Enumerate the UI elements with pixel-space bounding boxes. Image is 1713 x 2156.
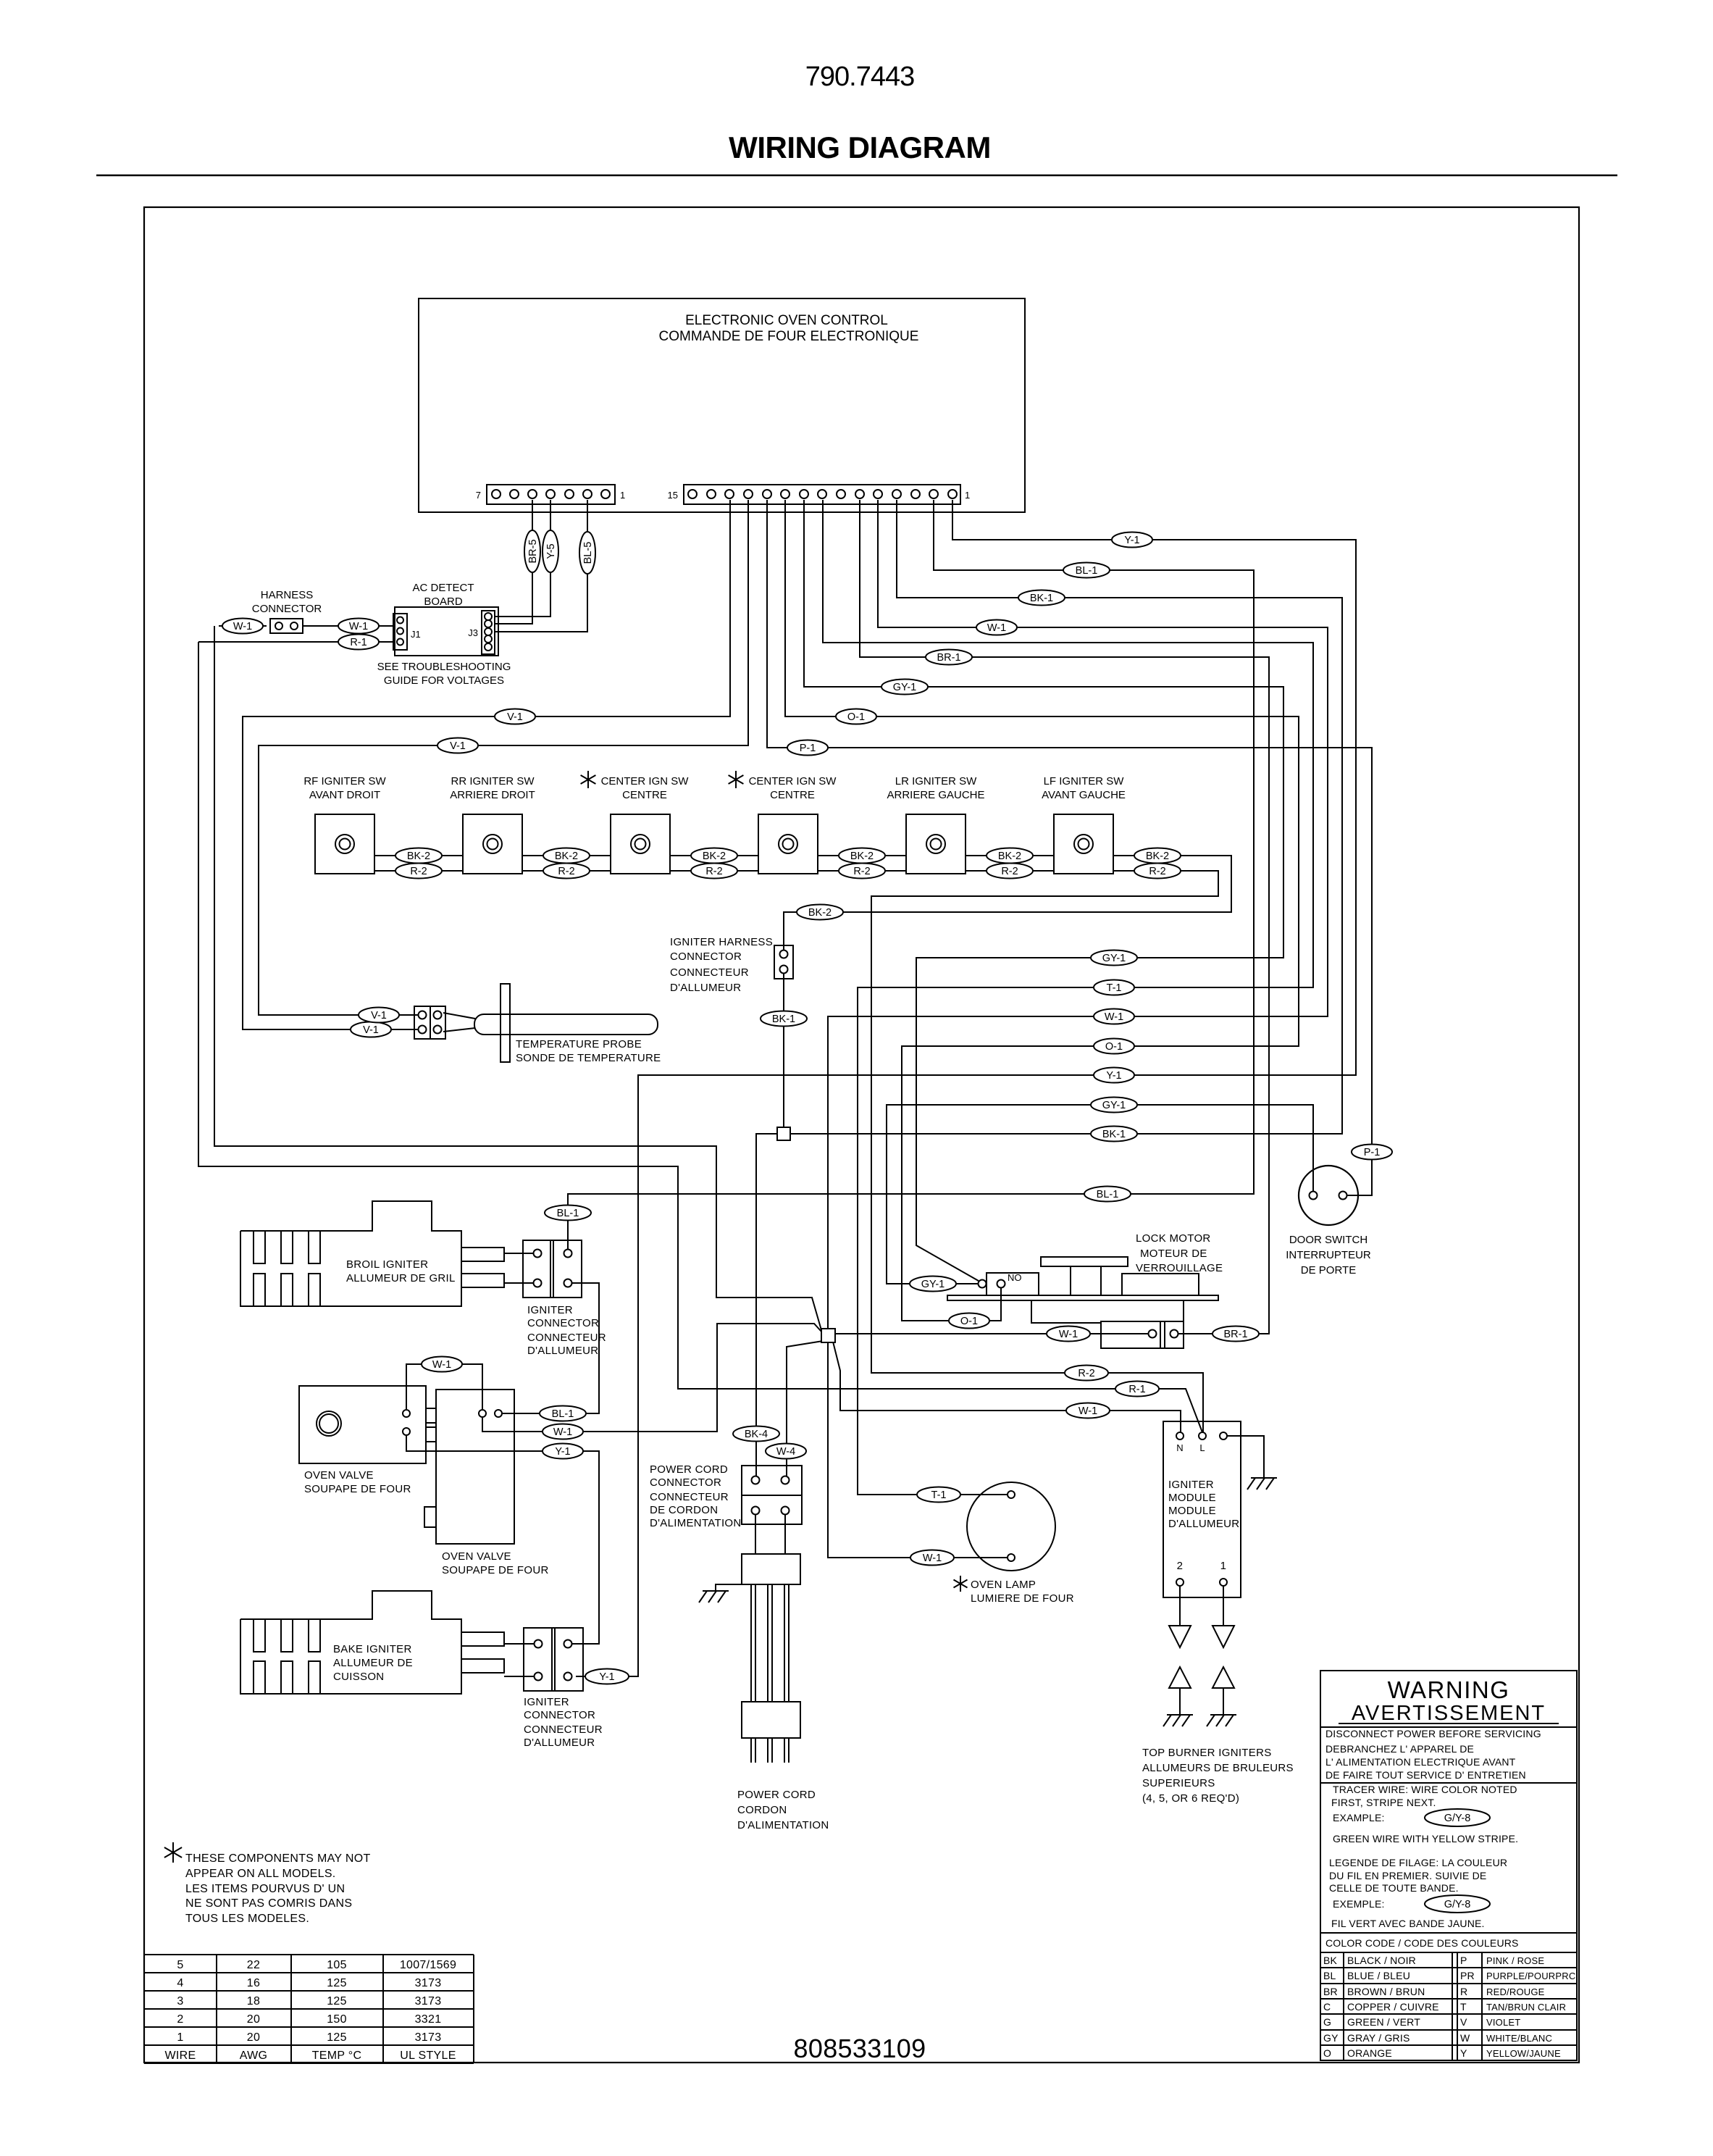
svg-text:G/Y-8: G/Y-8 [1444, 1813, 1471, 1824]
wire W-1 pin5 to node2 [828, 500, 1328, 1329]
svg-text:DE CORDON: DE CORDON [650, 1504, 718, 1516]
svg-text:1: 1 [1220, 1560, 1227, 1572]
svg-text:PURPLE/POURPRC: PURPLE/POURPRC [1486, 1971, 1575, 1981]
connector J1 [393, 614, 407, 650]
svg-text:GY: GY [1323, 2032, 1339, 2044]
svg-text:AVANT GAUCHE: AVANT GAUCHE [1042, 789, 1126, 801]
svg-text:SUPERIEURS: SUPERIEURS [1142, 1777, 1215, 1789]
svg-text:CONNECTOR: CONNECTOR [527, 1317, 599, 1329]
svg-text:O-1: O-1 [847, 711, 865, 723]
svg-text:BK-2: BK-2 [555, 851, 578, 862]
svg-text:BR-5: BR-5 [527, 539, 539, 563]
svg-text:SOUPAPE DE FOUR: SOUPAPE DE FOUR [304, 1483, 411, 1495]
svg-text:NE SONT PAS COMRIS DANS: NE SONT PAS COMRIS DANS [185, 1897, 352, 1910]
svg-text:COLOR CODE / CODE DES: COLOR CODE / CODE DES COULEURS [1325, 1937, 1519, 1949]
svg-text:Y-5: Y-5 [545, 543, 557, 559]
svg-text:T-1: T-1 [1107, 982, 1122, 994]
svg-text:W-4: W-4 [776, 1446, 795, 1458]
wire BL-1 pin2 to broil igniter connector [568, 500, 1254, 1249]
svg-text:YELLOW/JAUNE: YELLOW/JAUNE [1486, 2048, 1561, 2059]
svg-text:BK-2: BK-2 [808, 907, 832, 919]
svg-text:Y-1: Y-1 [1106, 1070, 1121, 1082]
svg-text:BL-1: BL-1 [557, 1208, 579, 1219]
svg-text:BL-1: BL-1 [552, 1408, 574, 1420]
svg-text:AVANT DROIT: AVANT DROIT [309, 789, 380, 801]
svg-text:MODULE: MODULE [1168, 1505, 1216, 1517]
svg-text:BK-2: BK-2 [703, 851, 726, 862]
wire W-1 node2 to oven lamp [828, 1342, 1007, 1558]
svg-text:DE FAIRE TOUT SERVICE D' E: DE FAIRE TOUT SERVICE D' ENTRETIEN [1325, 1769, 1526, 1781]
svg-text:IGNITER: IGNITER [1168, 1479, 1214, 1491]
svg-text:GREEN / VERT: GREEN / VERT [1347, 2016, 1420, 2028]
svg-text:Y-1: Y-1 [1124, 535, 1139, 546]
wire V-1 pin13 to probe [243, 500, 730, 1029]
svg-text:DEBRANCHEZ L' APPAREL DE: DEBRANCHEZ L' APPAREL DE [1325, 1743, 1474, 1755]
wire W-1 oven valve to node2 [482, 1324, 821, 1432]
svg-text:APPEAR ON ALL MODELS.: APPEAR ON ALL MODELS. [185, 1868, 336, 1880]
svg-text:20: 20 [247, 2031, 260, 2044]
warning box [1320, 1671, 1577, 2060]
svg-text:LUMIERE DE FOUR: LUMIERE DE FOUR [971, 1592, 1074, 1605]
color code table [1320, 1932, 1577, 1934]
svg-text:3: 3 [177, 1995, 183, 2007]
svg-text:LEGENDE DE FILAGE: LA CO: LEGENDE DE FILAGE: LA COULEUR [1329, 1857, 1507, 1868]
svg-text:BK-2: BK-2 [998, 851, 1021, 862]
wire R-1 harness to igniter module L [198, 641, 393, 643]
svg-text:790.7443: 790.7443 [805, 62, 915, 92]
svg-text:J3: J3 [468, 627, 478, 638]
svg-text:LR IGNITER SW: LR IGNITER SW [895, 775, 977, 787]
svg-text:POWER CORD: POWER CORD [650, 1463, 728, 1476]
wire W-1 node2 to lock motor terminal [834, 1333, 1148, 1334]
svg-text:BK-2: BK-2 [1146, 851, 1169, 862]
broil igniter [240, 1201, 461, 1306]
svg-text:HARNESS: HARNESS [261, 589, 314, 601]
svg-text:7: 7 [476, 490, 481, 501]
igniter switch 4: CENTER IGN SW [735, 771, 737, 788]
wire Y-5 pin4 to J3 [495, 500, 550, 617]
svg-text:CONNECTOR: CONNECTOR [252, 603, 322, 615]
svg-text:R-1: R-1 [350, 637, 367, 648]
wire R-2 from LF switch to igniter module L [871, 871, 1218, 1432]
power cord cable 3 [784, 1584, 785, 1702]
svg-text:TEMP °C: TEMP °C [312, 2050, 362, 2062]
svg-text:PINK / ROSE: PINK / ROSE [1486, 1955, 1544, 1966]
wire R-2 segment 4 [818, 870, 906, 872]
svg-text:808533109: 808533109 [794, 2034, 926, 2063]
wire W-1 harness to node2 via left side [219, 625, 267, 627]
svg-text:TRACER WIRE: WIRE COLOR: TRACER WIRE: WIRE COLOR NOTED [1333, 1784, 1517, 1795]
svg-text:GREEN WIRE WITH YELLOW STR: GREEN WIRE WITH YELLOW STRIPE. [1333, 1833, 1518, 1844]
svg-text:IGNITER: IGNITER [524, 1696, 569, 1708]
svg-text:V-1: V-1 [450, 740, 466, 752]
svg-text:Y: Y [1460, 2047, 1467, 2059]
ground igniter module aux [1227, 1436, 1264, 1478]
power cord strain relief [755, 1514, 756, 1554]
oven lamp [967, 1482, 1055, 1571]
wire R-2 segment 2 [522, 870, 611, 872]
svg-text:COPPER / CUIVRE: COPPER / CUIVRE [1347, 2001, 1439, 2013]
svg-text:125: 125 [327, 1977, 347, 1989]
wire gauge table [144, 1954, 474, 1955]
wire BK-2 from LF switch to igniter harness connector [784, 856, 1231, 950]
svg-text:D'ALIMENTATION: D'ALIMENTATION [737, 1819, 829, 1831]
svg-text:EXEMPLE:: EXEMPLE: [1333, 1898, 1385, 1910]
svg-text:PR: PR [1460, 1970, 1475, 1981]
svg-text:2: 2 [1177, 1560, 1184, 1572]
lock motor switch NO [987, 1273, 1039, 1295]
main border [144, 207, 1579, 2063]
svg-text:CORDON: CORDON [737, 1804, 787, 1816]
svg-text:FIL VERT AVEC BANDE JA: FIL VERT AVEC BANDE JAUNE. [1331, 1918, 1485, 1929]
svg-text:3173: 3173 [415, 1977, 442, 1989]
svg-text:R-1: R-1 [1128, 1384, 1145, 1395]
wire BK-2 segment 1 [374, 855, 463, 856]
wire BR-5 pin5 to AC detect J3 [495, 500, 532, 624]
svg-text:D'ALLUMEUR: D'ALLUMEUR [524, 1737, 595, 1749]
oven valve 1 [299, 1386, 426, 1463]
svg-text:CENTER IGN SW: CENTER IGN SW [749, 775, 837, 787]
svg-text:R: R [1460, 1986, 1467, 1997]
svg-text:BK-2: BK-2 [407, 851, 430, 862]
svg-text:(4, 5, OR 6 REQ'D): (4, 5, OR 6 REQ'D) [1142, 1792, 1239, 1805]
svg-text:1: 1 [965, 490, 970, 501]
svg-text:R-2: R-2 [705, 866, 722, 877]
svg-text:CONNECTEUR: CONNECTEUR [670, 966, 749, 979]
wire BL-5 pin2 to J3 [495, 500, 587, 632]
svg-text:Y-1: Y-1 [599, 1671, 614, 1683]
svg-text:INTERRUPTEUR: INTERRUPTEUR [1286, 1249, 1371, 1261]
svg-text:VERROUILLAGE: VERROUILLAGE [1136, 1262, 1223, 1274]
svg-text:125: 125 [327, 1995, 347, 2007]
svg-text:G: G [1323, 2016, 1331, 2028]
svg-text:1: 1 [620, 490, 625, 501]
svg-text:125: 125 [327, 2031, 347, 2044]
svg-text:18: 18 [247, 1995, 260, 2007]
svg-text:CONNECTEUR: CONNECTEUR [650, 1491, 729, 1503]
svg-text:1: 1 [177, 2031, 183, 2044]
svg-text:CENTRE: CENTRE [770, 789, 815, 801]
wire GY-1 door switch to lock motor switch [887, 1105, 1313, 1284]
wire Y-1 pin1 to bake igniter connector [576, 500, 1356, 1676]
svg-text:BLUE / BLEU: BLUE / BLEU [1347, 1970, 1410, 1981]
svg-text:BK-1: BK-1 [772, 1014, 795, 1025]
svg-text:CUISSON: CUISSON [333, 1671, 384, 1683]
svg-text:AC DETECT: AC DETECT [412, 582, 474, 594]
svg-text:ARRIERE GAUCHE: ARRIERE GAUCHE [887, 789, 984, 801]
svg-text:P-1: P-1 [1364, 1147, 1381, 1158]
svg-text:ORANGE: ORANGE [1347, 2047, 1392, 2059]
door switch [1299, 1166, 1358, 1225]
svg-text:P: P [1460, 1955, 1467, 1966]
svg-text:L: L [1199, 1442, 1205, 1453]
svg-text:20: 20 [247, 2013, 260, 2026]
svg-text:GY-1: GY-1 [1102, 953, 1126, 964]
wire P-1 pin11 to door switch [767, 500, 1372, 1195]
igniter module [1163, 1421, 1241, 1597]
svg-text:OVEN VALVE: OVEN VALVE [304, 1469, 374, 1482]
junction node1 [777, 1127, 790, 1140]
svg-text:J1: J1 [411, 629, 421, 640]
svg-text:UL STYLE: UL STYLE [400, 2050, 456, 2062]
svg-text:CONNECTOR: CONNECTOR [650, 1476, 721, 1489]
connector P2 7-pin [487, 485, 615, 504]
svg-text:V-1: V-1 [507, 711, 523, 723]
svg-text:D'ALIMENTATION: D'ALIMENTATION [650, 1517, 742, 1529]
svg-text:1007/1569: 1007/1569 [400, 1959, 456, 1971]
svg-text:TEMPERATURE PROBE: TEMPERATURE PROBE [516, 1038, 642, 1050]
svg-text:IGNITER HARNESS: IGNITER HARNESS [670, 936, 773, 948]
svg-text:FIRST, STRIPE NEXT.: FIRST, STRIPE NEXT. [1331, 1797, 1436, 1808]
svg-text:BK-1: BK-1 [1102, 1129, 1126, 1140]
svg-text:3173: 3173 [415, 1995, 442, 2007]
svg-text:16: 16 [247, 1977, 260, 1989]
svg-text:N: N [1176, 1442, 1183, 1453]
svg-text:OVEN LAMP: OVEN LAMP [971, 1579, 1036, 1591]
svg-text:D'ALLUMEUR: D'ALLUMEUR [527, 1345, 598, 1357]
wire R-2 segment 5 [966, 870, 1054, 872]
top burner igniter ground 2 [1212, 1667, 1234, 1688]
connector P1 15-pin [684, 485, 960, 504]
svg-text:DE PORTE: DE PORTE [1301, 1264, 1356, 1277]
svg-text:GY-1: GY-1 [921, 1279, 945, 1290]
svg-text:BL: BL [1323, 1970, 1336, 1981]
svg-text:GUIDE FOR VOLTAGES: GUIDE FOR VOLTAGES [384, 674, 504, 687]
svg-text:DISCONNECT POWER BEFORE SERVIC: DISCONNECT POWER BEFORE SERVICING [1325, 1728, 1541, 1739]
svg-text:R-2: R-2 [1001, 866, 1018, 877]
svg-text:W-1: W-1 [987, 622, 1006, 634]
svg-text:W-1: W-1 [432, 1359, 451, 1371]
svg-text:SEE TROUBLESHOOTING: SEE TROUBLESHOOTING [377, 661, 511, 673]
wire BK-1 pin4 to junction node1 [790, 500, 1342, 1134]
svg-text:AWG: AWG [240, 2050, 268, 2062]
bake igniter [240, 1591, 461, 1694]
wire BK-4 node1 to power cord connector [756, 1134, 777, 1476]
svg-text:T-1: T-1 [931, 1489, 947, 1501]
svg-text:GY-1: GY-1 [893, 682, 917, 693]
svg-text:BOARD: BOARD [424, 596, 463, 608]
svg-text:BK-1: BK-1 [1030, 593, 1053, 604]
junction node2 [821, 1329, 835, 1342]
wire GY-1 pin9 to lock motor switch lever [804, 500, 1283, 1281]
svg-text:IGNITER: IGNITER [527, 1304, 573, 1316]
top burner igniter arrow pair 2 [1223, 1586, 1224, 1626]
svg-text:15: 15 [668, 490, 678, 501]
svg-text:W: W [1460, 2032, 1470, 2044]
svg-text:R-2: R-2 [1078, 1368, 1094, 1379]
svg-text:TOUS LES MODELES.: TOUS LES MODELES. [185, 1913, 309, 1925]
svg-text:W-1: W-1 [1059, 1329, 1078, 1340]
svg-text:D'ALLUMEUR: D'ALLUMEUR [670, 982, 741, 994]
wire O-1 pin10 to lock motor switch NO [785, 500, 1299, 1321]
wire V-1 pin12 to probe [259, 500, 748, 1015]
svg-text:BL-5: BL-5 [582, 542, 594, 564]
svg-text:ELECTRONIC OVEN CONTROL: ELECTRONIC OVEN CONTROL [685, 313, 888, 328]
svg-text:COMMANDE DE FOUR ELECTRONIQ: COMMANDE DE FOUR ELECTRONIQUE [659, 329, 919, 344]
svg-text:AVERTISSEMENT: AVERTISSEMENT [1352, 1702, 1546, 1725]
svg-text:CELLE DE TOUTE BANDE.: CELLE DE TOUTE BANDE. [1329, 1882, 1459, 1894]
wire BL-1 broil connector to oven valve [502, 1283, 599, 1413]
svg-text:BR-1: BR-1 [1223, 1329, 1247, 1340]
wire BK-2 segment 3 [670, 855, 758, 856]
svg-text:BR-1: BR-1 [937, 652, 960, 664]
wire Y-1 oven valve to bake connector [406, 1435, 599, 1644]
electronic oven control box [419, 298, 1025, 512]
svg-text:BAKE IGNITER: BAKE IGNITER [333, 1643, 412, 1655]
svg-text:ALLUMEUR DE GRIL: ALLUMEUR DE GRIL [346, 1272, 456, 1284]
svg-text:O-1: O-1 [1105, 1041, 1123, 1053]
svg-text:BL-1: BL-1 [1097, 1189, 1119, 1200]
svg-text:V-1: V-1 [371, 1010, 387, 1021]
svg-text:105: 105 [327, 1959, 347, 1971]
svg-text:BK-4: BK-4 [745, 1429, 768, 1440]
power cord cable 1 [750, 1584, 752, 1702]
wire R-2 segment 3 [670, 870, 758, 872]
temperature probe terminal block [414, 1006, 445, 1039]
svg-text:ALLUMEUR DE: ALLUMEUR DE [333, 1657, 413, 1669]
svg-text:RF IGNITER SW: RF IGNITER SW [303, 775, 386, 787]
wire BR-1 pin6 to lock motor terminal [860, 500, 1269, 1334]
svg-text:RR IGNITER SW: RR IGNITER SW [451, 775, 535, 787]
svg-text:BL-1: BL-1 [1076, 565, 1098, 577]
igniter switch 3: CENTER IGN SW [587, 771, 589, 788]
wire BK-2 segment 2 [522, 855, 611, 856]
svg-text:VIOLET: VIOLET [1486, 2017, 1520, 2028]
svg-text:DOOR SWITCH: DOOR SWITCH [1289, 1234, 1368, 1246]
svg-text:CENTRE: CENTRE [622, 789, 667, 801]
svg-text:W-1: W-1 [553, 1426, 572, 1438]
svg-text:R-2: R-2 [558, 866, 574, 877]
svg-text:C: C [1323, 2001, 1331, 2013]
svg-text:R-2: R-2 [853, 866, 870, 877]
svg-text:2: 2 [177, 2013, 183, 2026]
svg-text:CONNECTEUR: CONNECTEUR [524, 1723, 603, 1736]
lock motor bracket and terminal box [1031, 1300, 1101, 1323]
svg-text:RED/ROUGE: RED/ROUGE [1486, 1986, 1545, 1997]
svg-text:TOP BURNER IGNITERS: TOP BURNER IGNITERS [1142, 1747, 1272, 1759]
svg-text:CENTER IGN SW: CENTER IGN SW [601, 775, 690, 787]
svg-text:EXAMPLE:: EXAMPLE: [1333, 1812, 1385, 1823]
svg-text:SONDE DE TEMPERATURE: SONDE DE TEMPERATURE [516, 1052, 661, 1064]
svg-text:L' ALIMENTATION ELECTRIQUE A: L' ALIMENTATION ELECTRIQUE AVANT [1325, 1756, 1516, 1768]
svg-text:LF IGNITER SW: LF IGNITER SW [1044, 775, 1125, 787]
svg-text:BROIL IGNITER: BROIL IGNITER [346, 1258, 428, 1271]
svg-text:V-1: V-1 [363, 1024, 379, 1036]
svg-text:Y-1: Y-1 [555, 1446, 570, 1458]
top burner igniter arrow pair 1 [1179, 1586, 1181, 1626]
svg-text:NO: NO [1008, 1272, 1022, 1283]
ground power cord [716, 1584, 742, 1591]
svg-text:G/Y-8: G/Y-8 [1444, 1899, 1471, 1910]
svg-text:POWER CORD: POWER CORD [737, 1789, 816, 1801]
svg-text:MODULE: MODULE [1168, 1492, 1216, 1504]
title underline [96, 175, 1617, 176]
svg-text:D'ALLUMEUR: D'ALLUMEUR [1168, 1518, 1239, 1530]
svg-text:CONNECTOR: CONNECTOR [670, 950, 742, 963]
svg-text:3173: 3173 [415, 2031, 442, 2044]
svg-text:GY-1: GY-1 [1102, 1100, 1126, 1111]
svg-text:BLACK / NOIR: BLACK / NOIR [1347, 1955, 1416, 1966]
svg-text:WIRING DIAGRAM: WIRING DIAGRAM [729, 130, 991, 164]
svg-text:SOUPAPE DE FOUR: SOUPAPE DE FOUR [442, 1564, 549, 1576]
svg-text:T: T [1460, 2001, 1467, 2013]
svg-text:4: 4 [177, 1977, 183, 1989]
svg-text:ARRIERE DROIT: ARRIERE DROIT [450, 789, 535, 801]
wire BK-2 segment 4 [818, 855, 906, 856]
svg-text:W-1: W-1 [1079, 1405, 1097, 1417]
svg-text:5: 5 [177, 1959, 183, 1971]
wire BK-2 segment 5 [966, 855, 1054, 856]
svg-text:TAN/BRUN CLAIR: TAN/BRUN CLAIR [1486, 2002, 1566, 2013]
wire W-4 node2 to power cord connector [787, 1341, 823, 1476]
svg-text:P-1: P-1 [800, 743, 816, 754]
svg-text:WIRE: WIRE [165, 2050, 196, 2062]
oven valve 2 [436, 1390, 514, 1544]
wire T-1 pin8 to oven lamp [823, 500, 1313, 1495]
AC detect board [395, 607, 498, 656]
top burner igniter ground 1 [1169, 1667, 1191, 1688]
svg-text:MOTEUR DE: MOTEUR DE [1140, 1248, 1207, 1260]
svg-text:W-1: W-1 [923, 1553, 942, 1564]
svg-text:ALLUMEURS DE BRULEURS: ALLUMEURS DE BRULEURS [1142, 1762, 1294, 1774]
wire W-1 oven valve 1 to valve 2 [406, 1364, 482, 1410]
bake igniter connector [524, 1628, 583, 1691]
svg-text:W-1: W-1 [233, 621, 252, 632]
svg-text:CONNECTOR: CONNECTOR [524, 1709, 595, 1721]
svg-text:THESE COMPONENTS MAY NOT: THESE COMPONENTS MAY NOT [185, 1852, 371, 1865]
svg-text:BR: BR [1323, 1986, 1338, 1997]
svg-text:3321: 3321 [415, 2013, 442, 2026]
svg-text:LES ITEMS POURVUS D' UN: LES ITEMS POURVUS D' UN [185, 1883, 345, 1895]
svg-text:BK-2: BK-2 [850, 851, 874, 862]
svg-text:DU FIL EN PREMIER. SUI: DU FIL EN PREMIER. SUIVIE DE [1329, 1870, 1486, 1881]
svg-text:O: O [1323, 2047, 1331, 2059]
wire R-2 segment 1 [374, 870, 463, 872]
temperature probe [443, 1013, 475, 1019]
svg-text:LOCK MOTOR: LOCK MOTOR [1136, 1232, 1211, 1245]
power cord cable 2 [767, 1584, 768, 1702]
broil igniter connector [523, 1240, 582, 1298]
svg-text:R-2: R-2 [1149, 866, 1165, 877]
svg-text:BK: BK [1323, 1955, 1338, 1966]
svg-text:150: 150 [327, 2013, 347, 2026]
svg-text:22: 22 [247, 1959, 260, 1971]
note these components [172, 1842, 174, 1863]
svg-text:W-1: W-1 [349, 621, 368, 632]
svg-text:BROWN / BRUN: BROWN / BRUN [1347, 1986, 1425, 1997]
svg-text:W-1: W-1 [1105, 1011, 1123, 1023]
svg-text:WHITE/BLANC: WHITE/BLANC [1486, 2033, 1552, 2044]
connector J3 [482, 611, 495, 654]
svg-text:OVEN VALVE: OVEN VALVE [442, 1550, 511, 1563]
svg-text:O-1: O-1 [960, 1316, 978, 1327]
svg-text:GRAY / GRIS: GRAY / GRIS [1347, 2032, 1410, 2044]
svg-text:R-2: R-2 [410, 866, 427, 877]
wire BK-1 connector to node1 [783, 974, 784, 1127]
svg-text:V: V [1460, 2016, 1467, 2028]
wire W-1 node2 to igniter module N [833, 1342, 1181, 1432]
svg-text:WARNING: WARNING [1388, 1676, 1510, 1703]
svg-text:CONNECTEUR: CONNECTEUR [527, 1332, 606, 1344]
